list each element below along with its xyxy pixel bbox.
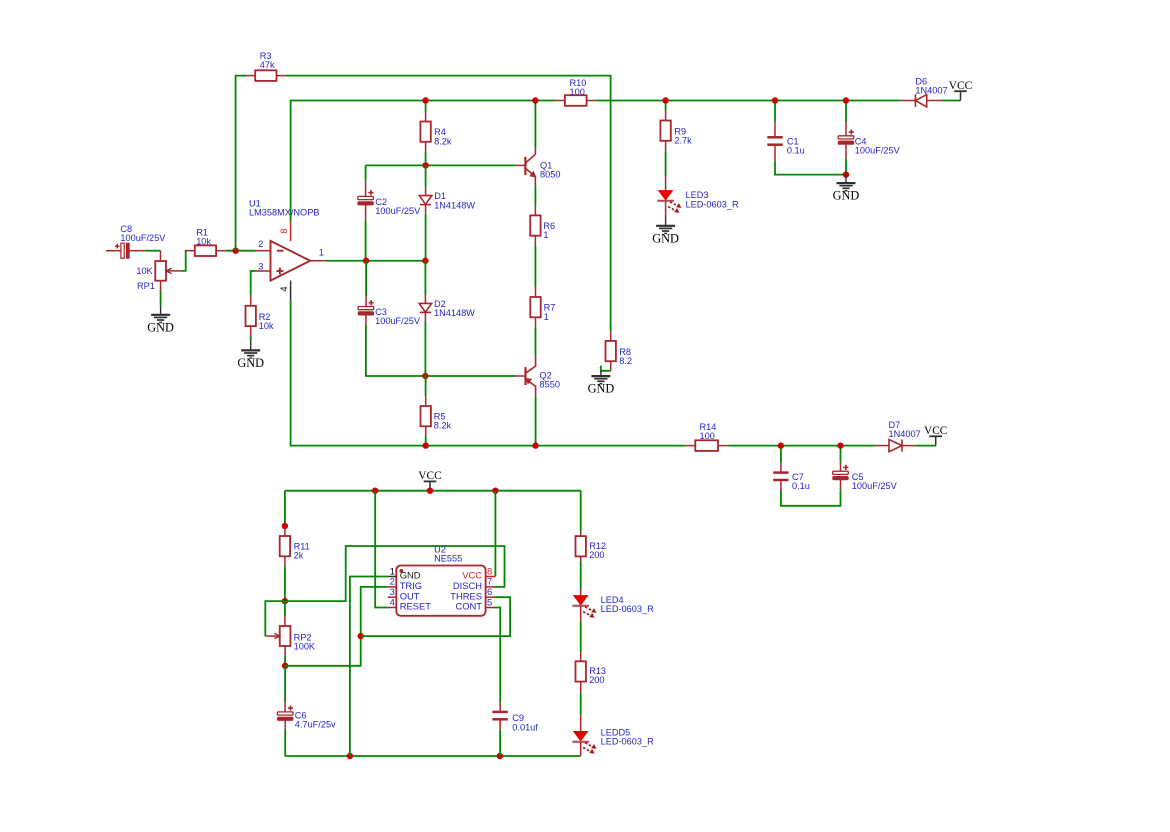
svg-text:1N4007: 1N4007: [915, 86, 947, 96]
wire: [145, 250, 161, 252]
svg-text:8550: 8550: [540, 380, 560, 390]
capacitor C5: [833, 463, 898, 492]
capacitor C6: [277, 702, 336, 730]
svg-text:GND: GND: [588, 382, 615, 396]
resistor R7: [530, 287, 555, 327]
svg-text:1N4148W: 1N4148W: [434, 200, 475, 210]
junction: [232, 248, 238, 254]
svg-text:100: 100: [700, 431, 715, 441]
svg-text:8.2k: 8.2k: [434, 421, 452, 431]
svg-text:RESET: RESET: [400, 601, 432, 612]
junction: [423, 442, 429, 448]
wire: [580, 561, 582, 589]
junction: [427, 488, 433, 494]
wire: [845, 159, 847, 175]
wire: [226, 250, 256, 252]
resistor R1: [185, 227, 226, 256]
pin 8: [279, 222, 291, 241]
resistor R10: [556, 78, 596, 106]
junction: [843, 97, 849, 103]
diode D2: [419, 295, 475, 322]
pin 2: [388, 576, 422, 591]
svg-text:0.01uf: 0.01uf: [512, 722, 538, 732]
svg-text:100: 100: [570, 87, 585, 97]
wire: [535, 327, 537, 356]
ground: [237, 341, 264, 370]
transistor Q1: [516, 148, 561, 185]
wire: [325, 260, 425, 262]
svg-text:RP1: RP1: [137, 281, 155, 291]
wire: [366, 164, 516, 166]
resistor R14: [685, 422, 727, 451]
wire: [284, 666, 286, 702]
wire: [601, 366, 611, 371]
svg-text:10k: 10k: [196, 237, 211, 247]
svg-text:100uF/25V: 100uF/25V: [375, 316, 421, 326]
svg-text:0.1u: 0.1u: [792, 481, 810, 491]
wire: [665, 151, 667, 176]
wire: [840, 446, 842, 463]
wire: [366, 325, 516, 376]
wire: [425, 101, 427, 112]
wire: [284, 601, 286, 616]
LED LED4: [572, 589, 654, 621]
junction: [662, 97, 668, 103]
wire: [775, 162, 846, 175]
wire: [728, 445, 876, 447]
svg-text:47k: 47k: [260, 60, 275, 70]
pin 8: [462, 565, 495, 580]
diode D6: [900, 76, 947, 107]
pin 1: [310, 247, 325, 260]
pin 5: [455, 596, 494, 611]
junction: [282, 523, 288, 529]
resistor R3: [246, 51, 286, 81]
svg-text:3: 3: [258, 261, 263, 271]
resistor R6: [530, 206, 555, 246]
pin 2: [256, 239, 271, 251]
wire: [845, 101, 847, 123]
junction: [282, 663, 288, 669]
resistor R2: [246, 296, 275, 336]
wire: [285, 546, 505, 601]
power VCC: [949, 80, 972, 101]
resistor R13: [576, 652, 607, 693]
svg-text:10K: 10K: [136, 266, 153, 276]
svg-text:200: 200: [589, 550, 604, 560]
wire: [286, 76, 611, 332]
svg-text:1: 1: [319, 247, 324, 257]
LED LEDD5: [572, 715, 654, 756]
wire: [365, 165, 367, 180]
junction: [347, 753, 353, 759]
junction: [363, 258, 369, 264]
wire: [916, 445, 936, 447]
svg-text:LED-0603_R: LED-0603_R: [601, 604, 654, 614]
pin 6: [450, 586, 494, 601]
svg-text:8: 8: [279, 228, 289, 233]
wire: [781, 490, 841, 506]
capacitor C7: [773, 463, 810, 491]
ground: [147, 305, 174, 334]
LED LED3: [657, 176, 739, 215]
junction: [422, 373, 428, 379]
svg-text:GND: GND: [147, 320, 174, 334]
wire: [534, 186, 536, 206]
resistor R11: [280, 526, 310, 566]
junction: [422, 258, 428, 264]
svg-text:4: 4: [279, 286, 289, 291]
wire: [580, 621, 582, 652]
wire: [534, 101, 536, 149]
diode D7: [876, 420, 921, 452]
svg-text:100uF/25V: 100uF/25V: [855, 146, 901, 156]
wire: [285, 755, 581, 757]
svg-text:5: 5: [487, 596, 492, 607]
potentiometer RP2: [265, 616, 316, 656]
wire: [534, 246, 536, 288]
svg-text:100uF/25V: 100uF/25V: [852, 481, 898, 491]
wire: [250, 336, 252, 341]
svg-text:0.1u: 0.1u: [787, 146, 805, 156]
svg-text:GND: GND: [400, 570, 421, 581]
svg-text:10k: 10k: [259, 321, 274, 331]
wire: [535, 396, 537, 446]
svg-text:100uF/25V: 100uF/25V: [120, 233, 166, 243]
junction: [358, 633, 364, 639]
wire: [285, 490, 581, 492]
capacitor C2: [358, 181, 421, 221]
svg-text:VCC: VCC: [924, 425, 947, 437]
power VCC: [418, 470, 441, 491]
wire: [499, 730, 501, 756]
svg-text:LED-0603_R: LED-0603_R: [686, 199, 739, 209]
svg-text:VCC: VCC: [418, 470, 441, 482]
svg-text:200: 200: [589, 675, 604, 685]
resistor R12: [576, 531, 607, 561]
svg-text:1N4148W: 1N4148W: [434, 308, 475, 318]
wire: [425, 165, 427, 186]
svg-text:GND: GND: [237, 356, 264, 370]
wire: [236, 76, 246, 251]
svg-text:GND: GND: [833, 189, 860, 203]
svg-text:LM358MX/NOPB: LM358MX/NOPB: [249, 208, 319, 218]
ground: [588, 371, 615, 396]
svg-text:NE555: NE555: [434, 554, 462, 564]
wire: [350, 577, 388, 757]
wire: [424, 322, 426, 376]
wire: [365, 221, 367, 261]
wire: [424, 261, 426, 295]
pin 4: [279, 281, 291, 301]
junction: [422, 162, 428, 168]
wire: [580, 693, 582, 715]
pin 3: [256, 261, 271, 271]
junction: [497, 753, 503, 759]
wire: [285, 587, 388, 666]
wire: [284, 566, 286, 601]
capacitor C9: [492, 702, 538, 732]
wire: [425, 436, 427, 446]
resistor R5: [421, 396, 452, 436]
svg-text:GND: GND: [652, 231, 679, 245]
wire: [160, 291, 162, 306]
junction: [843, 171, 849, 177]
junction: [778, 442, 784, 448]
wire: [375, 491, 388, 608]
svg-text:2: 2: [258, 239, 263, 249]
wire: [780, 446, 782, 463]
wire: [941, 100, 961, 102]
resistor R9: [660, 111, 692, 151]
pin 7: [453, 576, 495, 591]
junction: [492, 488, 498, 494]
wire: [580, 491, 582, 531]
pin 1: [388, 565, 421, 580]
potentiometer RP1: [136, 251, 181, 291]
svg-text:1: 1: [543, 230, 548, 240]
junction: [837, 442, 843, 448]
wire: [265, 601, 285, 636]
capacitor C4: [838, 122, 900, 159]
wire: [181, 251, 185, 271]
wire: [365, 261, 367, 297]
svg-text:8: 8: [487, 565, 492, 576]
power VCC: [924, 425, 947, 446]
wire: [494, 491, 496, 577]
ground: [833, 175, 860, 203]
resistor R4: [420, 112, 451, 152]
op-amp U1: [249, 199, 319, 281]
svg-text:100K: 100K: [294, 641, 316, 651]
pin 4: [388, 596, 431, 611]
wire: [291, 101, 556, 223]
svg-text:100uF/25V: 100uF/25V: [375, 206, 421, 216]
wire: [291, 301, 686, 446]
wire: [425, 376, 427, 396]
wire: [425, 214, 427, 261]
svg-text:2k: 2k: [294, 551, 304, 561]
svg-text:8050: 8050: [540, 170, 560, 180]
svg-text:4.7uF/25v: 4.7uF/25v: [295, 720, 336, 730]
svg-text:LED-0603_R: LED-0603_R: [601, 737, 654, 747]
junction: [282, 598, 288, 604]
svg-text:4: 4: [390, 596, 395, 607]
wire: [774, 101, 776, 122]
svg-text:1: 1: [544, 312, 549, 322]
svg-text:VCC: VCC: [462, 570, 482, 581]
junction: [532, 442, 538, 448]
capacitor C1: [767, 122, 804, 162]
wire: [284, 491, 286, 526]
svg-text:VCC: VCC: [949, 80, 972, 92]
junction: [772, 97, 778, 103]
svg-text:1: 1: [390, 565, 395, 576]
pin 3: [388, 586, 420, 601]
junction: [372, 488, 378, 494]
wire: [596, 100, 901, 102]
wire: [284, 656, 286, 666]
wire: [284, 730, 286, 756]
op-amp U2 NE555 box: [396, 545, 485, 616]
wire: [251, 271, 256, 296]
resistor R8: [606, 331, 633, 371]
wire: [665, 101, 667, 111]
ground: [652, 215, 679, 245]
wire: [495, 608, 501, 703]
svg-text:CONT: CONT: [455, 601, 482, 612]
svg-text:8.2: 8.2: [619, 356, 632, 366]
junction: [422, 97, 428, 103]
wire: [361, 597, 510, 636]
svg-text:2.7k: 2.7k: [674, 135, 692, 145]
capacitor C8: [106, 224, 166, 258]
svg-text:8.2k: 8.2k: [434, 136, 452, 146]
transistor Q2: [516, 356, 560, 396]
junction: [532, 97, 538, 103]
wire: [425, 152, 427, 166]
svg-text:1N4007: 1N4007: [889, 429, 921, 439]
capacitor C3: [358, 297, 421, 327]
diode D1: [419, 187, 475, 214]
